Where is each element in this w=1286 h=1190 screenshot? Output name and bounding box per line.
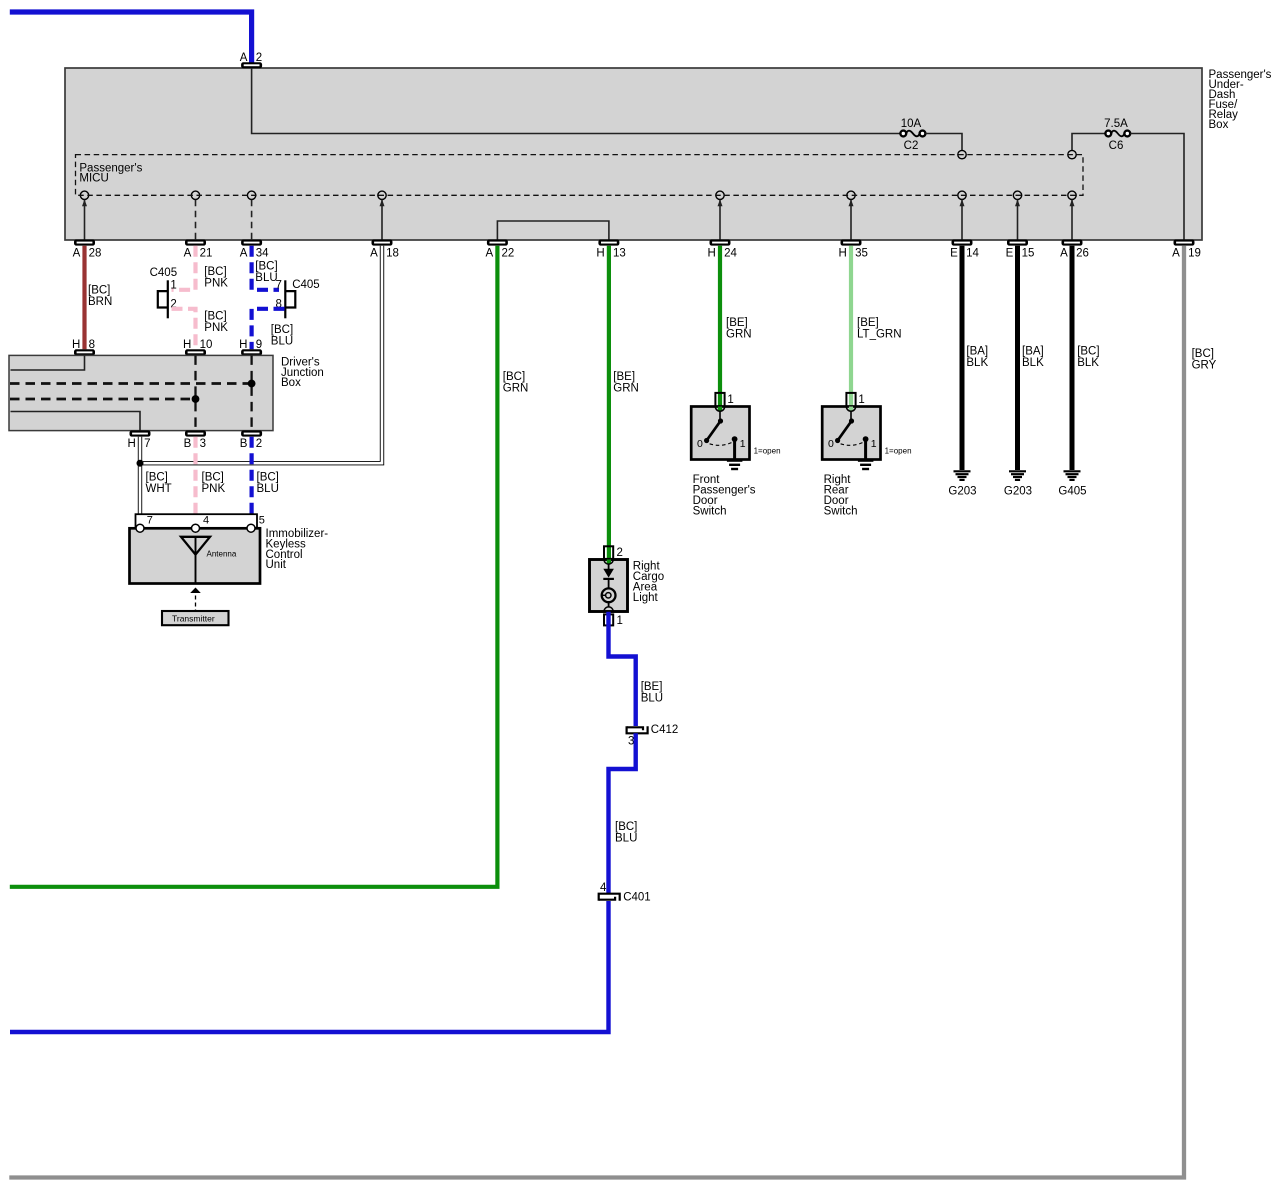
label BE LT_GRN (H35) (857, 317, 902, 341)
cargo light entry cup (604, 560, 613, 565)
svg-text:WHT: WHT (146, 483, 172, 495)
svg-text:[BC]: [BC] (503, 371, 525, 383)
svg-text:15: 15 (1022, 248, 1035, 260)
wire A21 [BC] PNK upper (172, 246, 196, 290)
svg-text:BLU: BLU (641, 692, 663, 704)
front passenger door switch: switch entry terminal cup (715, 407, 724, 412)
right rear door switch: switch throw dashed arc (841, 442, 864, 445)
svg-text:2: 2 (256, 52, 262, 64)
wire A26 [BC] BLK (1070, 246, 1075, 470)
fuse C2 10A (900, 131, 925, 137)
wire A18 to H7 junction [BC] WHT (143, 246, 382, 464)
wire A34 [BC] BLU upper (252, 246, 279, 290)
svg-text:[BE]: [BE] (613, 371, 635, 383)
connector E14 terminal (952, 240, 973, 246)
wire stub inside cargo light (607, 560, 611, 564)
wire MICU internal to H35 (849, 199, 854, 239)
svg-text:A: A (370, 248, 378, 260)
wire MICU internal to E14 (960, 199, 965, 239)
svg-text:4: 4 (600, 882, 607, 894)
svg-text:H: H (239, 339, 247, 351)
svg-text:BLU: BLU (255, 272, 277, 284)
svg-text:H: H (72, 339, 80, 351)
right rear door switch: switch body (822, 407, 880, 460)
wire junction H10-B3 dashed (194, 355, 196, 430)
drivers junction box label (281, 356, 324, 389)
svg-text:1=open: 1=open (754, 446, 781, 455)
connector E15 terminal (1007, 240, 1028, 246)
wire C405 to H9 [BC] BLU (252, 309, 285, 350)
MICU label (79, 162, 142, 184)
svg-text:PNK: PNK (204, 278, 228, 290)
connector E15 label (1006, 248, 1035, 260)
wire cargo light to C412 [BE] BLU (609, 612, 636, 726)
svg-text:B: B (240, 438, 248, 450)
svg-text:BLU: BLU (615, 832, 637, 844)
svg-text:GRN: GRN (503, 382, 529, 394)
node MICU pin A21 (191, 191, 199, 199)
right rear door switch: switch name label (824, 474, 858, 518)
connector A21 label (184, 248, 213, 260)
svg-text:Light: Light (633, 592, 659, 604)
junction box H9 terminal (241, 349, 262, 355)
node MICU pin E15 (1013, 191, 1021, 199)
svg-text:1: 1 (727, 394, 733, 406)
front passenger door switch: wire into switch (718, 246, 722, 407)
junction bus 2 dashed (10, 398, 196, 401)
label BE GRN (H13) (613, 371, 639, 395)
connector A28 label (73, 248, 102, 260)
connector A34 terminal (241, 240, 262, 246)
label BE GRN (H24) (726, 317, 752, 341)
svg-text:1: 1 (170, 279, 176, 291)
svg-text:[BC]: [BC] (146, 471, 168, 483)
svg-text:G203: G203 (948, 486, 976, 498)
svg-text:H: H (596, 248, 604, 260)
cargo light diode (603, 564, 614, 588)
svg-text:BLK: BLK (966, 357, 988, 369)
svg-text:10: 10 (200, 339, 213, 351)
node fuse C6 input on MICU (1068, 150, 1076, 158)
front passenger door switch: switch ground (727, 461, 743, 469)
svg-text:14: 14 (966, 248, 979, 260)
connector A18 terminal (372, 240, 393, 246)
junction box B3 terminal (185, 431, 206, 437)
front passenger door switch: switch pin 1 terminal (715, 393, 724, 408)
svg-text:7.5A: 7.5A (1104, 118, 1128, 130)
svg-text:H: H (838, 248, 846, 260)
node junction H10 bus2 (192, 395, 200, 403)
node fuse C2 output on MICU (958, 150, 966, 158)
ground G203 (E14) (954, 471, 971, 480)
front passenger door switch: switch name label (693, 474, 756, 518)
svg-text:Transmitter: Transmitter (172, 613, 215, 623)
wire H13 [BE] GRN (607, 246, 611, 560)
svg-text:C412: C412 (651, 724, 679, 736)
label BA BLK (E14) (966, 345, 988, 369)
antenna symbol (181, 537, 210, 584)
junction box H8 terminal (74, 349, 95, 355)
connector A26 label (1060, 248, 1089, 260)
right rear door switch: wire stub inside switch (849, 407, 853, 412)
svg-text:MICU: MICU (79, 173, 108, 185)
connector H13 label (596, 248, 625, 260)
svg-text:[BC]: [BC] (1192, 348, 1214, 360)
fuse C6 7.5A (1105, 131, 1130, 137)
junction box H8 label (72, 339, 95, 351)
svg-text:BLU: BLU (271, 335, 293, 347)
svg-text:1: 1 (871, 438, 877, 450)
cargo light name label (633, 561, 664, 604)
svg-text:[BC]: [BC] (88, 285, 110, 297)
svg-text:C405: C405 (150, 267, 178, 279)
svg-text:Switch: Switch (824, 505, 858, 517)
svg-text:A: A (240, 248, 248, 260)
node junction H9 bus1 (248, 380, 256, 388)
wire fuse C6 to A19 (1130, 134, 1184, 241)
label BC PNK lower (204, 311, 228, 335)
fuse/relay box name label (1209, 69, 1272, 131)
ground G203 (E15) (1009, 471, 1026, 480)
wire A28 [BC] BRN (82, 246, 86, 350)
connector C405 (pins 1-2) (158, 280, 168, 318)
immobilizer-keyless control unit body (130, 528, 261, 583)
drivers junction box body (9, 355, 273, 430)
svg-text:0: 0 (828, 438, 834, 450)
svg-text:PNK: PNK (204, 322, 228, 334)
connector C401 (599, 894, 620, 901)
front passenger door switch: switch body (691, 407, 749, 460)
svg-text:A: A (73, 248, 81, 260)
svg-text:A: A (1172, 248, 1180, 260)
svg-text:1: 1 (617, 615, 623, 627)
wire MICU internal to A21 (195, 200, 197, 240)
connector A22 label (486, 248, 515, 260)
svg-text:[BC]: [BC] (1077, 345, 1099, 357)
connector C412 (627, 726, 648, 733)
connector H35 terminal (841, 240, 862, 246)
svg-text:8: 8 (89, 339, 95, 351)
label BC PNK upper (204, 266, 228, 290)
junction box H9 label (239, 339, 262, 351)
svg-text:2: 2 (617, 547, 623, 559)
svg-text:7: 7 (275, 279, 281, 291)
wire battery feed blue (10, 12, 252, 63)
label BC BLK (A26) (1077, 345, 1099, 369)
wire B3 to immobilizer [BC] PNK (193, 437, 197, 517)
svg-text:1: 1 (740, 438, 746, 450)
svg-text:[BA]: [BA] (966, 345, 988, 357)
svg-text:9: 9 (256, 339, 262, 351)
svg-text:BRN: BRN (88, 296, 112, 308)
svg-text:B: B (184, 438, 192, 450)
svg-text:GRY: GRY (1192, 359, 1217, 371)
svg-text:G203: G203 (1004, 486, 1032, 498)
connector H24 terminal (710, 240, 731, 246)
wire E14 [BA] BLK (960, 246, 965, 470)
right rear door switch: switch pin 1 terminal (846, 393, 855, 408)
label BC PNK bottom (202, 471, 226, 495)
wire junction H9-B2 dashed (250, 355, 252, 430)
front passenger door switch: switch throw dashed arc (710, 442, 733, 445)
label BC GRN (503, 371, 529, 395)
immobilizer pin 7 socket (136, 524, 144, 532)
right rear door switch: switch contact 1 (863, 436, 869, 460)
svg-text:10A: 10A (901, 118, 922, 130)
fuse/relay box body (65, 68, 1202, 240)
junction box H10 label (183, 339, 212, 351)
wire C405 to H10 [BC] PNK (172, 309, 196, 350)
cargo light exit link (608, 602, 610, 607)
wire C412 to C401 [BC] BLU (609, 733, 636, 893)
connector A21 terminal (185, 240, 206, 246)
immobilizer pin 4 socket (192, 524, 200, 532)
svg-text:C401: C401 (623, 892, 651, 904)
label BA BLK (E15) (1022, 345, 1044, 369)
connector A26 terminal (1062, 240, 1083, 246)
svg-text:4: 4 (203, 515, 209, 527)
cargo light exit cup (604, 607, 613, 612)
svg-text:C6: C6 (1109, 140, 1124, 152)
label BC BLU bottom (257, 471, 279, 495)
wire junction internal H7 (11, 412, 141, 431)
svg-text:[BC]: [BC] (257, 471, 279, 483)
connector C405 (pins 7-8) (285, 280, 295, 318)
connector A19 label (1172, 248, 1201, 260)
svg-text:28: 28 (89, 248, 102, 260)
connector E14 label (950, 248, 979, 260)
label BC GRY (A19) (1192, 348, 1217, 372)
svg-text:5: 5 (259, 515, 265, 527)
wire internal from A2 to fuse C2 (252, 68, 901, 134)
svg-text:H: H (127, 438, 135, 450)
svg-text:[BA]: [BA] (1022, 345, 1044, 357)
connector A18 label (370, 248, 399, 260)
right rear door switch: switch lever (835, 411, 854, 443)
front passenger door switch: wire stub inside switch (718, 407, 722, 412)
svg-text:[BE]: [BE] (857, 317, 879, 329)
svg-text:18: 18 (386, 248, 399, 260)
svg-text:H: H (183, 339, 191, 351)
connector H13 terminal (598, 240, 619, 246)
wire MICU node to fuse C6 (1072, 134, 1105, 152)
wire A19 [BC] GRY (9, 246, 1184, 1178)
svg-text:GRN: GRN (726, 328, 752, 340)
svg-text:21: 21 (200, 248, 213, 260)
transmitter dashed link (195, 596, 197, 612)
svg-text:[BC]: [BC] (204, 266, 226, 278)
wire C401 to left edge [BC] BLU (10, 901, 609, 1032)
svg-text:Box: Box (1209, 119, 1229, 131)
svg-text:19: 19 (1188, 248, 1201, 260)
right rear door switch: switch entry terminal cup (846, 407, 855, 412)
node MICU pin E14 (958, 191, 966, 199)
connector A22 terminal (487, 240, 508, 246)
MICU dashed box (76, 155, 1084, 196)
wire MICU internal to E15 (1015, 199, 1020, 239)
wire fuse C2 to MICU node (925, 134, 962, 152)
front passenger door switch: switch contact 1 (732, 436, 738, 460)
wire H7 to immobilizer [BC] WHT (138, 437, 142, 517)
wire MICU internal to A18 (380, 199, 385, 239)
cargo light body (590, 560, 628, 612)
front passenger door switch: switch lever (704, 411, 723, 443)
svg-text:G405: G405 (1058, 486, 1086, 498)
wire MICU internal to A34 (251, 200, 253, 240)
svg-text:[BE]: [BE] (641, 681, 663, 693)
node MICU pin H35 (847, 191, 855, 199)
cargo light pin 1 terminal (604, 614, 613, 625)
svg-text:A: A (486, 248, 494, 260)
junction bus 1 dashed (10, 382, 252, 385)
node MICU pin A18 (378, 191, 386, 199)
immobilizer pin 5 socket (247, 524, 255, 532)
svg-text:LT_GRN: LT_GRN (857, 328, 902, 340)
immobilizer connector strip (136, 514, 258, 528)
svg-text:[BC]: [BC] (615, 821, 637, 833)
svg-text:34: 34 (256, 248, 269, 260)
connector A2 label (240, 52, 262, 64)
right rear door switch: wire into switch (849, 246, 853, 407)
svg-text:0: 0 (697, 438, 703, 450)
node WHT junction dot (137, 460, 144, 467)
connector A2 terminal (241, 62, 262, 68)
wire junction internal H8 (11, 355, 85, 370)
svg-text:C2: C2 (904, 140, 919, 152)
svg-text:13: 13 (613, 248, 626, 260)
svg-text:1=open: 1=open (885, 446, 912, 455)
junction box H10 terminal (185, 349, 206, 355)
ground G405 (A26) (1064, 471, 1081, 480)
svg-text:BLU: BLU (257, 483, 279, 495)
svg-text:35: 35 (855, 248, 868, 260)
svg-text:26: 26 (1076, 248, 1089, 260)
svg-text:[BC]: [BC] (202, 471, 224, 483)
label BC BLU mid (615, 821, 637, 845)
node MICU pin A26 (1068, 191, 1076, 199)
connector A34 label (240, 248, 269, 260)
svg-text:2: 2 (256, 438, 262, 450)
svg-text:A: A (1060, 248, 1068, 260)
connector A28 terminal (74, 240, 95, 246)
svg-text:BLK: BLK (1077, 357, 1099, 369)
junction box H7 terminal (130, 431, 151, 437)
svg-text:BLK: BLK (1022, 357, 1044, 369)
connector H35 label (838, 248, 867, 260)
connector H24 label (707, 248, 737, 260)
wire MICU internal to H24 (718, 199, 723, 239)
label BC BLU upper (255, 260, 277, 284)
svg-text:Box: Box (281, 377, 301, 389)
wire B2 to immobilizer [BC] BLU (250, 437, 254, 517)
immobilizer name label (266, 528, 329, 571)
svg-text:3: 3 (628, 735, 634, 747)
svg-text:[BC]: [BC] (204, 311, 226, 323)
svg-text:GRN: GRN (613, 382, 639, 394)
wire internal jumper A22-H13 (497, 221, 609, 240)
svg-text:E: E (1006, 248, 1014, 260)
svg-text:1: 1 (858, 394, 864, 406)
svg-text:24: 24 (724, 248, 737, 260)
svg-text:E: E (950, 248, 958, 260)
svg-text:7: 7 (147, 515, 153, 527)
junction box H7 label (127, 438, 150, 450)
node MICU pin A34 (247, 191, 255, 199)
svg-text:3: 3 (200, 438, 206, 450)
wire MICU internal to A26 (1070, 199, 1075, 239)
junction box B2 terminal (241, 431, 262, 437)
label BC BLU lower (271, 324, 293, 348)
svg-text:22: 22 (502, 248, 515, 260)
svg-text:Antenna: Antenna (207, 549, 237, 558)
svg-text:[BE]: [BE] (726, 317, 748, 329)
transmitter arrow (190, 588, 201, 594)
svg-text:PNK: PNK (202, 483, 226, 495)
wire A22 [BC] GRN (10, 246, 498, 887)
connector A19 terminal (1174, 240, 1195, 246)
svg-text:A: A (240, 52, 248, 64)
svg-text:C405: C405 (292, 279, 320, 291)
svg-text:[BC]: [BC] (271, 324, 293, 336)
junction box B2 label (240, 438, 262, 450)
label BC BRN (88, 285, 112, 309)
svg-text:H: H (707, 248, 715, 260)
label BC WHT (146, 471, 172, 495)
svg-text:Unit: Unit (266, 559, 287, 571)
svg-text:Switch: Switch (693, 505, 727, 517)
svg-text:[BC]: [BC] (255, 260, 277, 272)
cargo light pin 2 terminal (604, 546, 613, 559)
wire E15 [BA] BLK (1015, 246, 1020, 470)
node MICU pin A28 (80, 191, 88, 199)
label BE BLU (641, 681, 663, 705)
transmitter box (162, 611, 229, 625)
wire MICU internal to A28 (82, 199, 87, 239)
junction box B3 label (184, 438, 206, 450)
cargo light bulb (602, 588, 616, 602)
node MICU pin H24 (716, 191, 724, 199)
svg-text:A: A (184, 248, 192, 260)
right rear door switch: switch ground (858, 461, 874, 469)
svg-text:7: 7 (144, 438, 150, 450)
